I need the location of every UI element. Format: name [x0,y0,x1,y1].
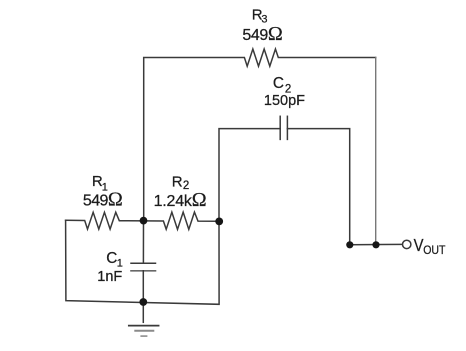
svg-text:2: 2 [183,180,189,192]
svg-text:1.24kΩ: 1.24kΩ [154,189,207,211]
svg-text:R: R [172,173,183,190]
svg-text:OUT: OUT [423,243,446,257]
svg-text:1nF: 1nF [97,269,122,285]
svg-text:1: 1 [117,257,123,269]
svg-text:C: C [273,75,284,92]
svg-text:549Ω: 549Ω [242,23,282,45]
svg-text:150pF: 150pF [264,93,305,109]
svg-text:C: C [106,250,117,267]
svg-text:549Ω: 549Ω [83,189,123,211]
svg-text:3: 3 [261,14,267,26]
svg-text:V: V [414,235,424,255]
